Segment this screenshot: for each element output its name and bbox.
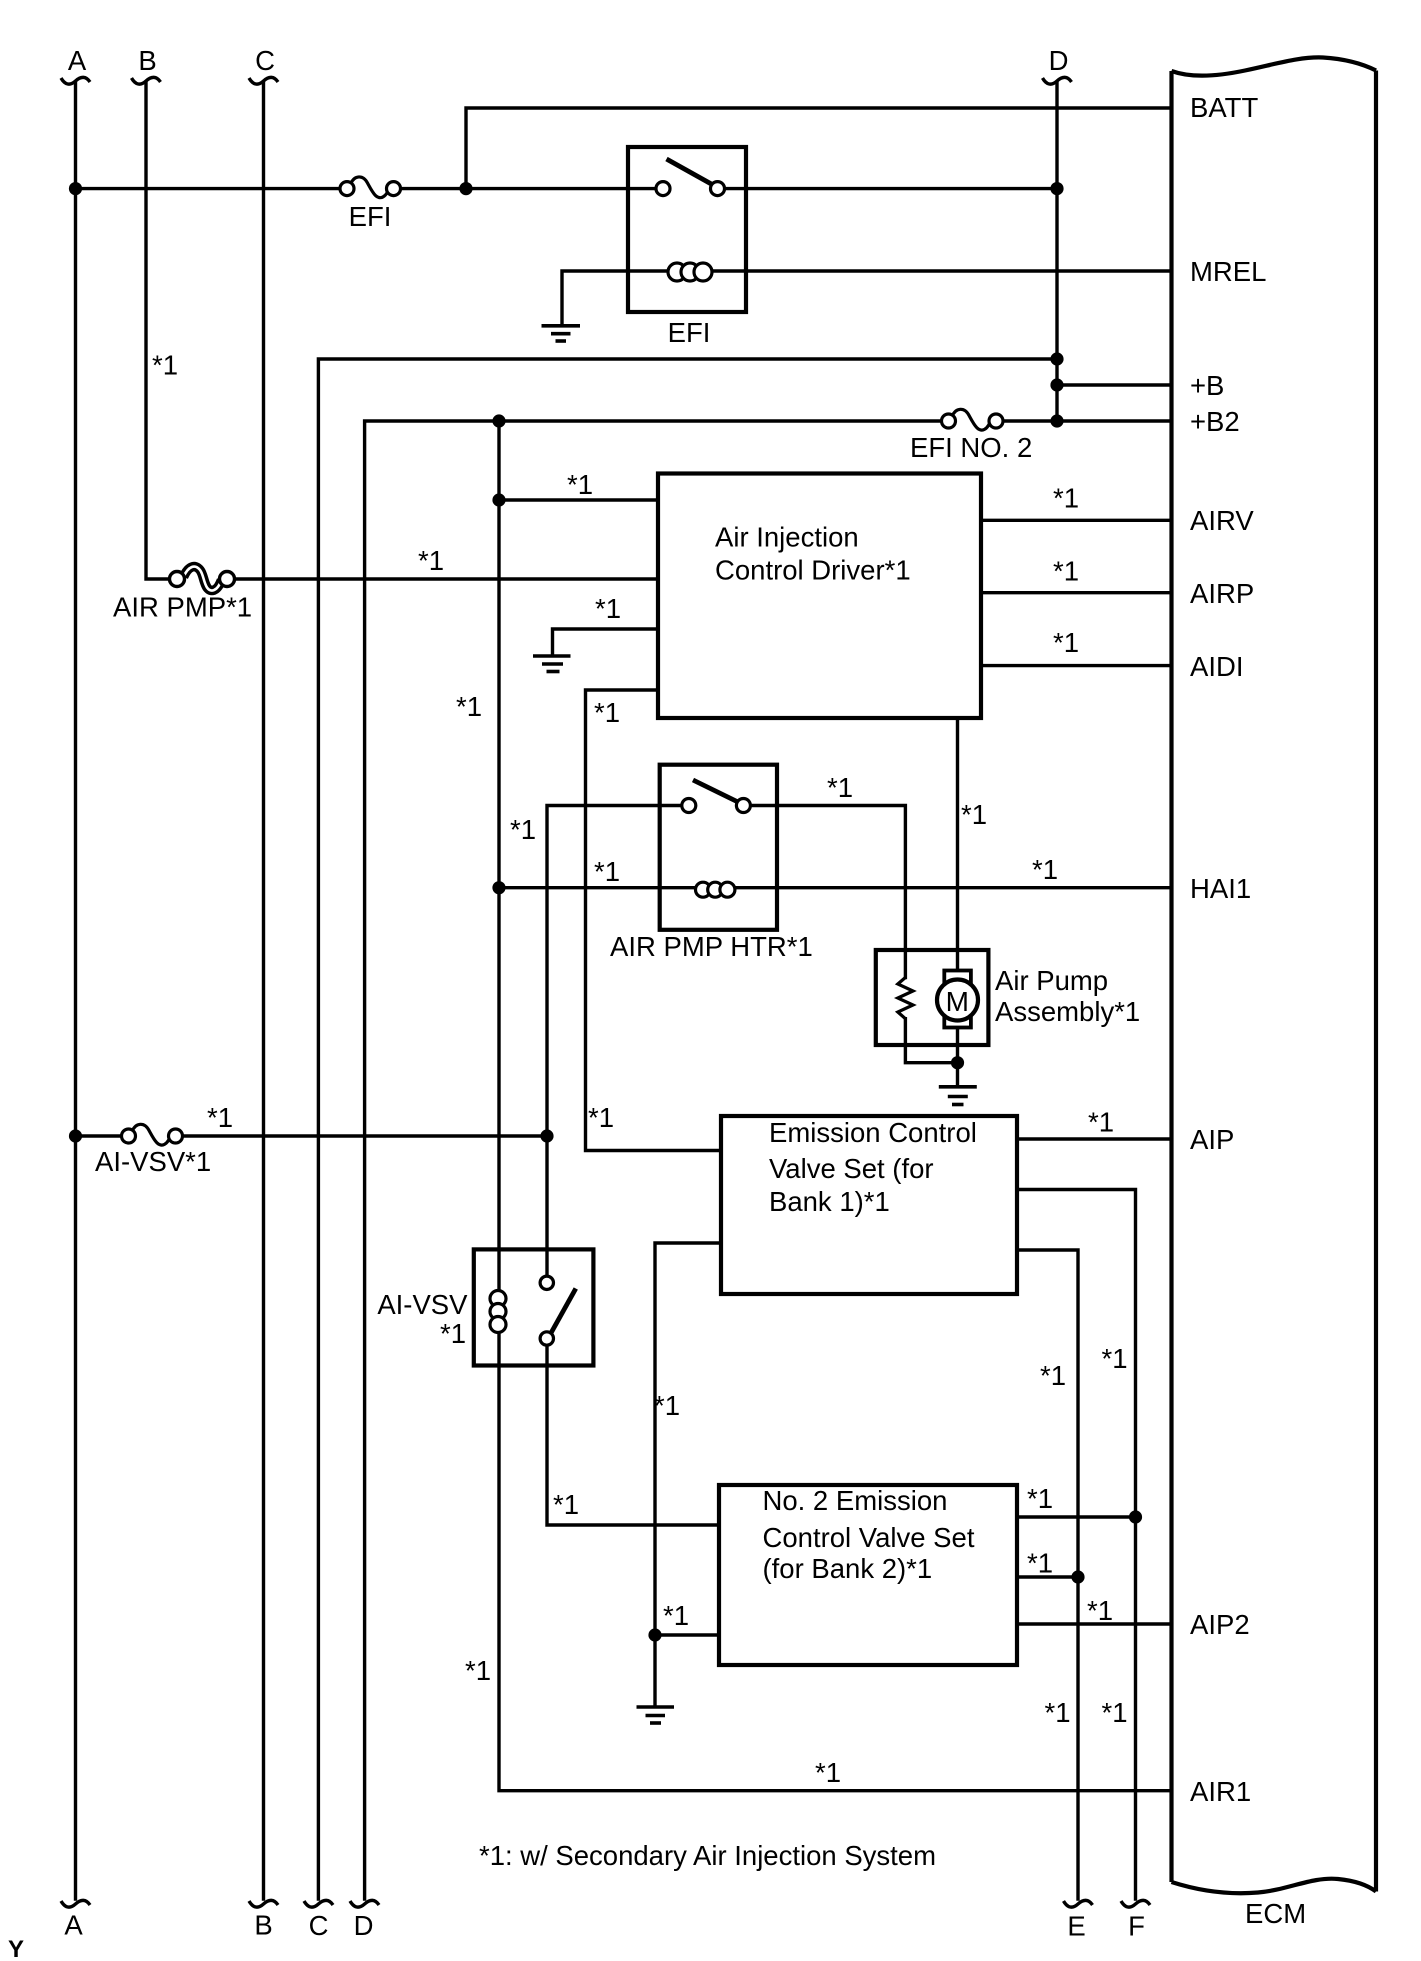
svg-text:AIR1: AIR1 xyxy=(1190,1776,1251,1807)
svg-text:AIP2: AIP2 xyxy=(1190,1609,1250,1640)
wire AIP from bank1 valve set to ECM xyxy=(1017,1137,1172,1140)
No. 2 Emission Control Valve Set (for Bank 2) box xyxy=(719,1485,1017,1665)
svg-text:D: D xyxy=(354,1910,374,1941)
wire MREL from ground stub through EFI relay coil to ECM xyxy=(562,271,668,324)
svg-text:F: F xyxy=(1128,1911,1145,1942)
svg-text:*1: *1 xyxy=(440,1318,466,1349)
connector break marks xyxy=(61,77,1150,1907)
svg-text:Bank 1)*1: Bank 1)*1 xyxy=(769,1186,890,1217)
relay EFI box xyxy=(628,147,746,312)
svg-text:*1: *1 xyxy=(510,814,536,845)
wire EFI relay coil to MREL pin xyxy=(712,269,1172,272)
svg-text:B: B xyxy=(254,1910,272,1941)
svg-text:No. 2 Emission: No. 2 Emission xyxy=(763,1485,948,1516)
wire No.2 valve set output to line E junction xyxy=(1017,1575,1078,1578)
wire No.2 valve set output to line F junction xyxy=(1017,1515,1136,1518)
svg-text:*1: *1 xyxy=(418,545,444,576)
svg-text:*1: *1 xyxy=(1087,1595,1113,1626)
wire A node to AI-VSV fuse xyxy=(76,1134,122,1137)
svg-text:+B2: +B2 xyxy=(1190,406,1240,437)
svg-text:HAI1: HAI1 xyxy=(1190,873,1251,904)
wire EFI relay switch to node D xyxy=(725,187,1057,190)
svg-text:*1: *1 xyxy=(594,856,620,887)
svg-text:MREL: MREL xyxy=(1190,256,1266,287)
svg-text:*1: *1 xyxy=(961,799,987,830)
wire HAI1 left segment through HTR relay coil xyxy=(499,886,697,889)
svg-text:Air Injection: Air Injection xyxy=(715,522,859,553)
svg-text:Assembly*1: Assembly*1 xyxy=(995,996,1140,1027)
relay AI-VSV box xyxy=(474,1249,594,1365)
ECM top wavy edge xyxy=(1172,57,1377,75)
wire HTR relay switch left to vertical x547 xyxy=(547,806,682,1277)
svg-text:*1: *1 xyxy=(1032,854,1058,885)
svg-text:AIP: AIP xyxy=(1190,1124,1234,1155)
wire bank1 valve set lower-left output down to No.2 valve set ground node xyxy=(655,1243,721,1705)
wire driver ground stub xyxy=(553,629,659,655)
svg-text:*1: *1 xyxy=(1102,1343,1128,1374)
svg-text:A: A xyxy=(68,45,87,76)
op-amp U1 Air Injection Control Driver box xyxy=(658,474,981,719)
wire AIR PMP fuse to driver AIRP pin xyxy=(235,577,659,580)
ECM bottom wavy edge xyxy=(1172,1879,1377,1893)
svg-text:*1: *1 xyxy=(465,1655,491,1686)
svg-text:AIDI: AIDI xyxy=(1190,651,1243,682)
fusible link AIR PMP xyxy=(170,567,235,591)
svg-text:AIRV: AIRV xyxy=(1190,505,1254,536)
wire node to driver AIRV input xyxy=(499,498,658,501)
svg-text:*1: *1 xyxy=(567,469,593,500)
fuse EFI NO. 2 xyxy=(942,409,1004,430)
resistor R inside Air Pump Assembly xyxy=(898,978,913,1019)
wire air pump motor leg through box to ground xyxy=(956,1027,959,1085)
wire bank1 valve set right output to line F xyxy=(1017,1190,1136,1900)
svg-text:EFI: EFI xyxy=(668,317,711,348)
svg-text:BATT: BATT xyxy=(1190,92,1258,123)
ECM left edge xyxy=(1169,71,1173,1882)
svg-text:AI-VSV*1: AI-VSV*1 xyxy=(95,1146,211,1177)
wire +B2 fuse to ECM xyxy=(1003,419,1172,422)
svg-text:*1: *1 xyxy=(456,691,482,722)
svg-text:*1: *1 xyxy=(594,697,620,728)
ECM right edge xyxy=(1374,71,1378,1892)
wire AI-VSV fuse to x547 node xyxy=(183,1134,548,1137)
wire driver AIDI output to ECM xyxy=(981,664,1172,667)
svg-text:*1: *1 xyxy=(654,1390,680,1421)
ground (air pump) xyxy=(939,1087,977,1105)
coil of AIR PMP HTR relay xyxy=(696,882,735,897)
wire +B2 feed left segment and down to bottom D xyxy=(365,421,942,1899)
node junction dots xyxy=(69,182,1142,1642)
wire HTR relay switch right to air pump resistor xyxy=(750,806,905,978)
svg-text:*1: *1 xyxy=(1053,556,1079,587)
motor M of Air Pump Assembly xyxy=(937,971,978,1028)
wire connector line B top to AIR PMP fuse xyxy=(146,83,170,579)
wire driver bottom output down to air pump motor xyxy=(956,718,959,971)
svg-text:E: E xyxy=(1067,1911,1085,1942)
svg-text:Emission Control: Emission Control xyxy=(769,1117,977,1148)
svg-text:M: M xyxy=(946,986,969,1017)
svg-text:AIR PMP HTR*1: AIR PMP HTR*1 xyxy=(610,931,813,962)
svg-text:*1: *1 xyxy=(553,1489,579,1520)
svg-text:Control Valve Set: Control Valve Set xyxy=(763,1522,975,1553)
svg-text:AIRP: AIRP xyxy=(1190,578,1254,609)
svg-text:*1: *1 xyxy=(1088,1107,1114,1138)
svg-text:*1: *1 xyxy=(1027,1548,1053,1579)
Emission Control Valve Set (for Bank 1) box xyxy=(721,1116,1017,1294)
wire x547 below AI-VSV relay switch to No.2 valve set xyxy=(547,1345,719,1525)
fuse AI-VSV xyxy=(122,1124,183,1145)
ground (driver) xyxy=(533,656,571,672)
svg-text:Valve Set (for: Valve Set (for xyxy=(769,1153,934,1184)
wire +B pin xyxy=(1057,383,1172,386)
svg-text:*1: *1 xyxy=(595,593,621,624)
wire EFI fuse to EFI relay switch xyxy=(401,187,656,190)
svg-text:*1: *1 xyxy=(1027,1483,1053,1514)
wire driver lower output to emission valve set bank1 xyxy=(586,690,722,1151)
svg-text:*1: *1 xyxy=(588,1102,614,1133)
svg-text:*1: *1 xyxy=(1053,483,1079,514)
svg-text:+B: +B xyxy=(1190,370,1224,401)
svg-text:*1: *1 xyxy=(207,1102,233,1133)
svg-text:EFI NO. 2: EFI NO. 2 xyxy=(910,432,1032,463)
svg-text:*1: *1 xyxy=(1040,1360,1066,1391)
svg-text:*1: *1 xyxy=(815,1757,841,1788)
svg-text:AI-VSV: AI-VSV xyxy=(377,1289,468,1320)
svg-text:*1: *1 xyxy=(1102,1697,1128,1728)
svg-text:ECM: ECM xyxy=(1245,1898,1306,1929)
wire main battery feed A to EFI fuse xyxy=(76,187,341,190)
wire ground node to No.2 valve set lower-left input xyxy=(655,1633,719,1636)
wire connector line D top segment xyxy=(1055,83,1058,421)
svg-text:*1: *1 xyxy=(663,1600,689,1631)
svg-text:C: C xyxy=(309,1910,329,1941)
svg-text:Air Pump: Air Pump xyxy=(995,965,1108,996)
svg-text:Y: Y xyxy=(8,1936,24,1961)
ground (No.2 valve set) xyxy=(637,1707,675,1723)
switch of AI-VSV relay xyxy=(540,1276,576,1345)
wire air pump resistor leg to motor ground node xyxy=(905,1019,957,1063)
ground (EFI relay) xyxy=(542,326,581,341)
fuse EFI xyxy=(340,177,401,198)
relay AIR PMP HTR box xyxy=(660,765,777,930)
svg-text:A: A xyxy=(64,1910,83,1941)
svg-text:AIR PMP*1: AIR PMP*1 xyxy=(113,592,252,623)
svg-text:B: B xyxy=(138,45,156,76)
switch of EFI relay xyxy=(656,159,725,196)
svg-text:*1: w/ Secondary Air Injection: *1: w/ Secondary Air Injection System xyxy=(479,1840,936,1871)
svg-text:EFI: EFI xyxy=(349,201,392,232)
wire driver AIRP output to ECM xyxy=(981,591,1172,594)
wire bank1 valve set right lower output to line E xyxy=(1017,1250,1078,1899)
svg-text:C: C xyxy=(255,45,275,76)
svg-text:Control Driver*1: Control Driver*1 xyxy=(715,555,911,586)
wire BATT from EFI fuse node up to ECM xyxy=(466,108,1172,189)
Air Pump Assembly box xyxy=(876,950,989,1045)
wire connector line A (vertical, full height) xyxy=(74,83,77,1899)
wire AIP2 from No.2 valve set to ECM xyxy=(1017,1622,1172,1625)
wire driver AIRV output to ECM xyxy=(981,519,1172,522)
svg-text:*1: *1 xyxy=(1045,1697,1071,1728)
wire vertical bus x499 from +B2 down to AIR1 corner then to ECM xyxy=(499,421,1172,1791)
wire +B feed from node D down to bottom C xyxy=(318,359,1057,1899)
switch of AIR PMP HTR relay xyxy=(682,780,751,813)
svg-text:D: D xyxy=(1049,45,1069,76)
coil of AI-VSV relay xyxy=(490,1291,506,1333)
svg-text:*1: *1 xyxy=(827,772,853,803)
coil of EFI relay xyxy=(668,263,712,281)
wire HTR relay coil to HAI1 pin of ECM xyxy=(735,886,1172,889)
svg-text:*1: *1 xyxy=(1053,627,1079,658)
svg-text:*1: *1 xyxy=(152,350,178,381)
wire connector line C top to bottom B xyxy=(262,83,265,1899)
svg-text:(for Bank 2)*1: (for Bank 2)*1 xyxy=(763,1553,933,1584)
